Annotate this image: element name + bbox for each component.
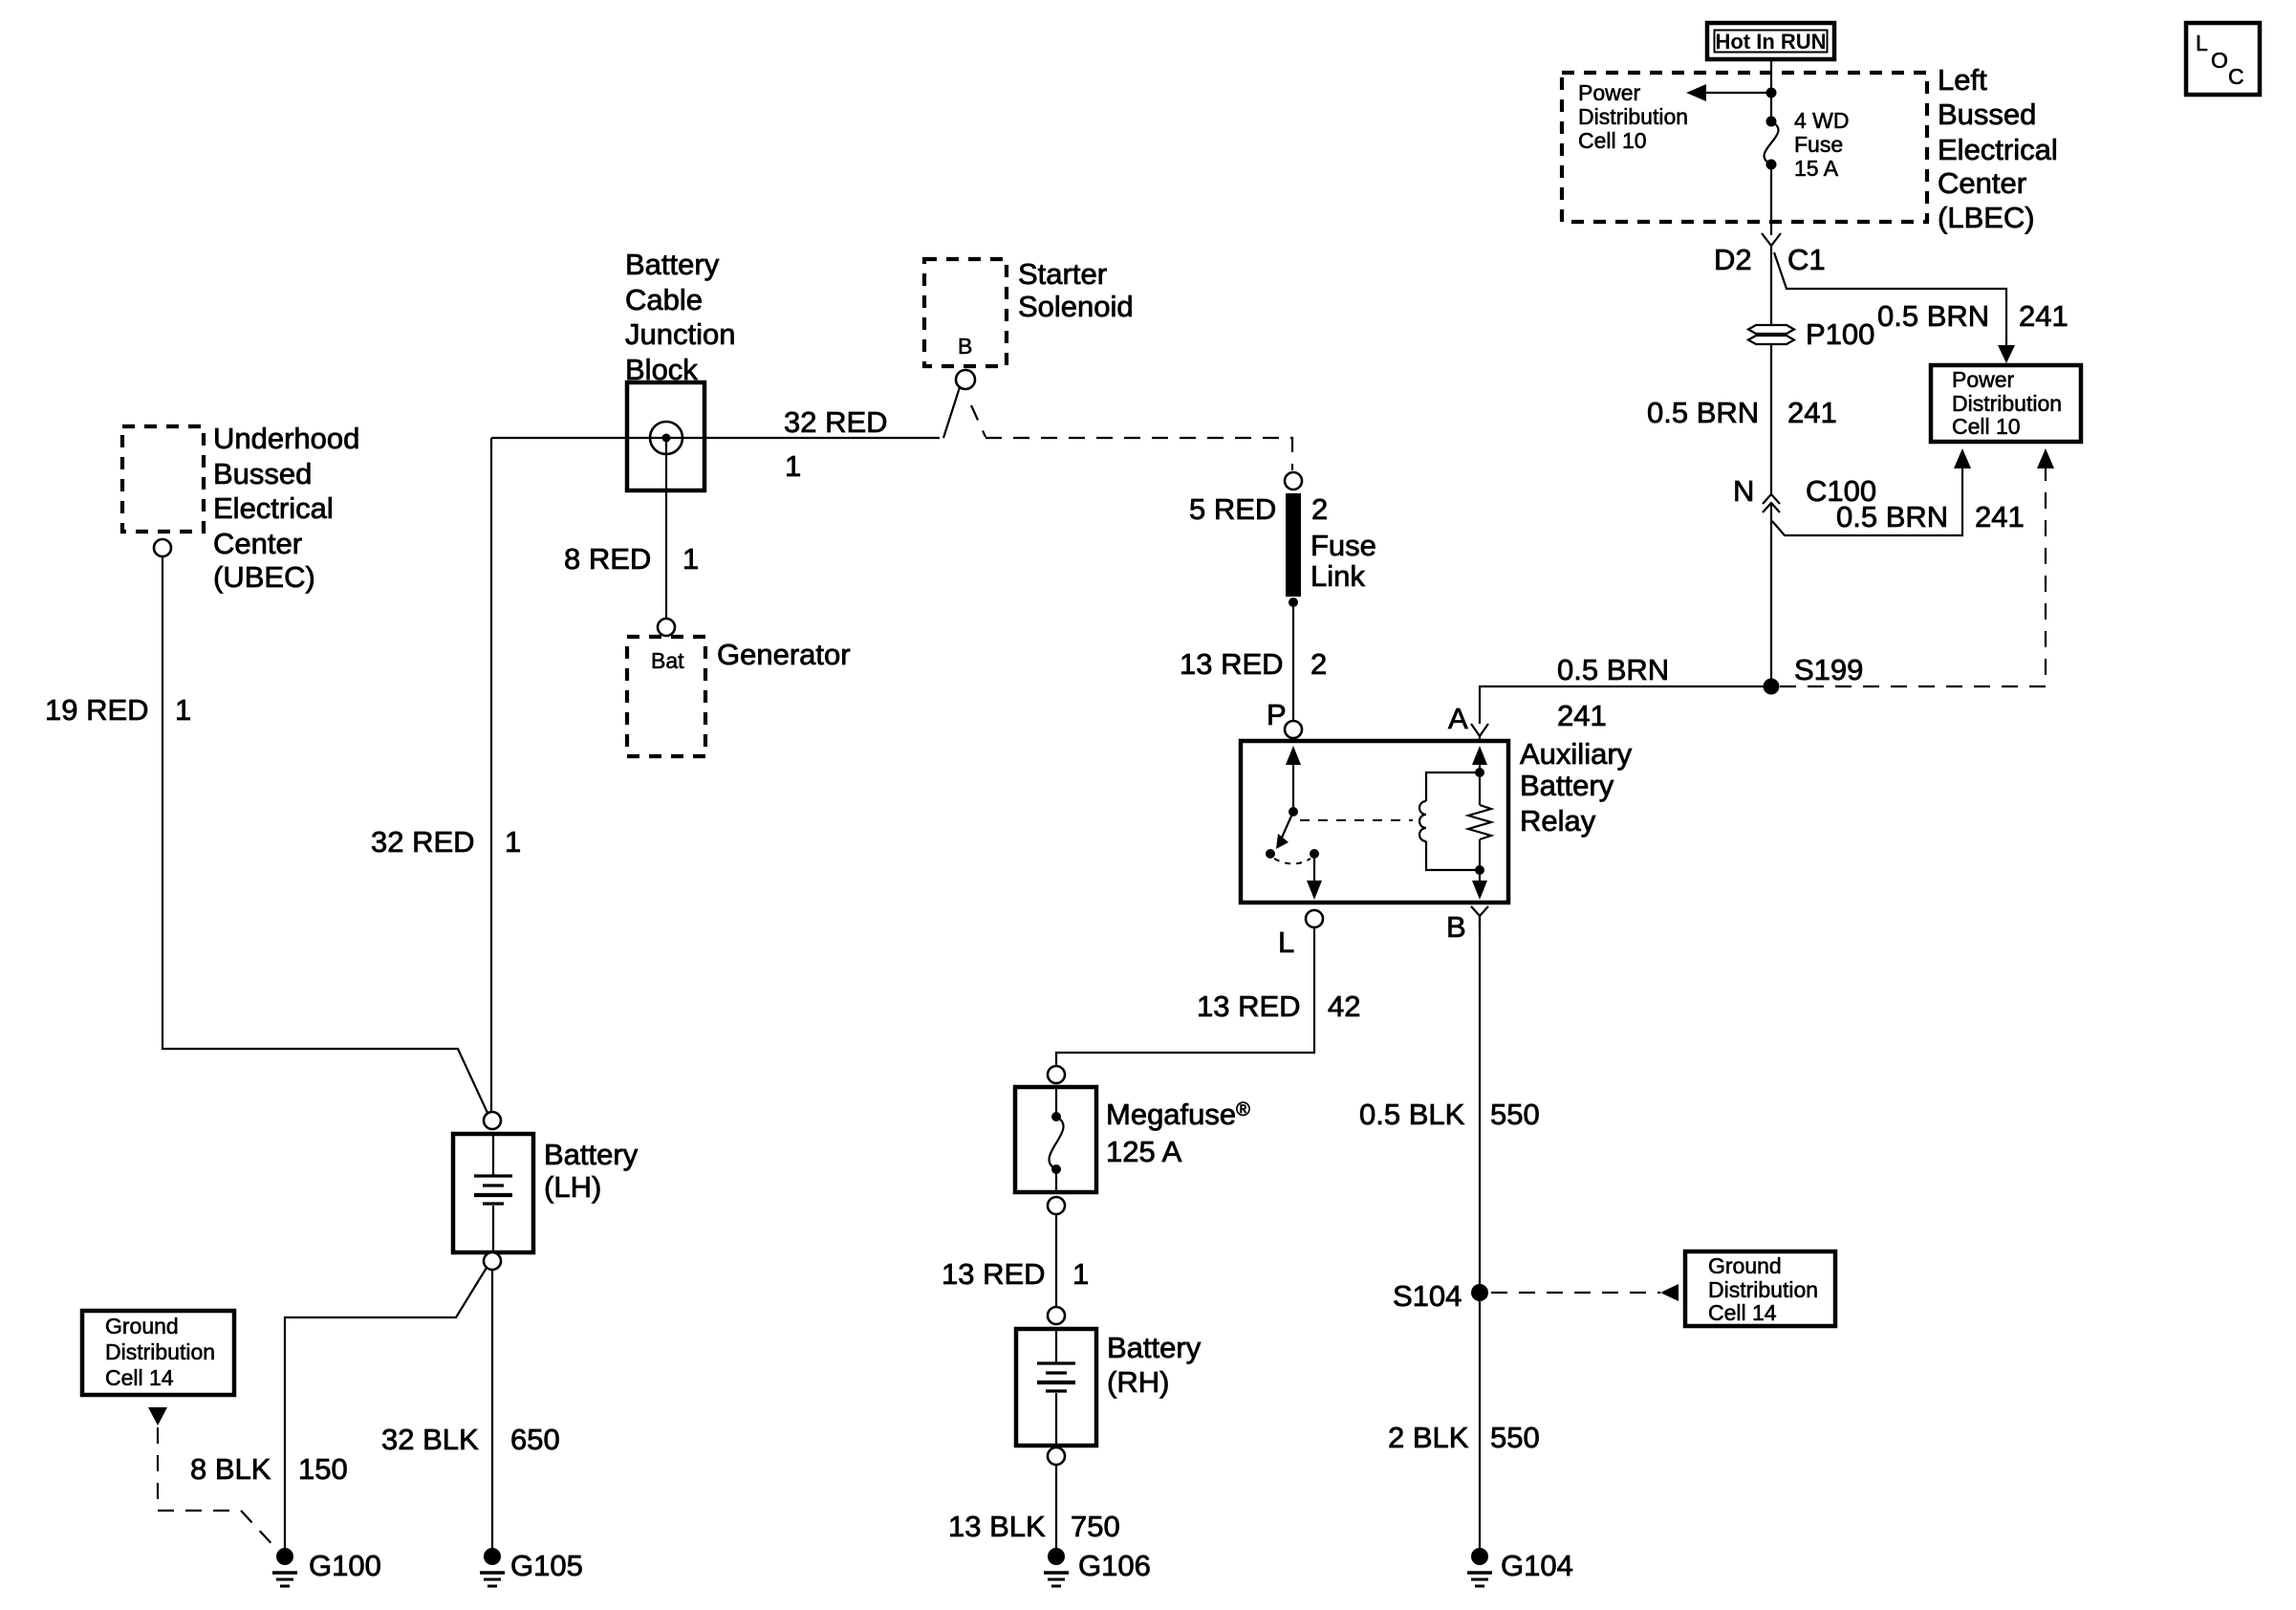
relay internal: switch contact right: [1310, 849, 1319, 859]
box: Ground Distribution Cell 14 (left): [82, 1311, 234, 1395]
label: Starter Solenoid: [1018, 257, 1134, 323]
svg-text:O: O: [2211, 48, 2228, 73]
label: Left Bussed Electrical Center (LBEC): [1938, 63, 2058, 234]
ground G100: [272, 1548, 297, 1586]
svg-text:13 RED: 13 RED: [942, 1257, 1046, 1291]
wire: junction block to battery LH (32 RED 1): [490, 438, 492, 1112]
connector: battery RH positive ring: [1048, 1307, 1065, 1324]
wire: relay B to G104: [1479, 916, 1481, 1549]
svg-text:1: 1: [785, 449, 801, 483]
LOC inset box: [2186, 23, 2260, 95]
svg-text:550: 550: [1490, 1421, 1540, 1454]
svg-text:Distribution: Distribution: [1952, 391, 2062, 416]
svg-text:G106: G106: [1078, 1549, 1151, 1582]
svg-text:32 RED: 32 RED: [784, 405, 888, 439]
svg-text:2: 2: [1311, 492, 1328, 526]
fuse link element: [1289, 493, 1298, 607]
svg-text:L: L: [1278, 925, 1294, 959]
ground G106: [1044, 1548, 1069, 1586]
node S104: [1471, 1284, 1488, 1301]
svg-text:19 RED: 19 RED: [45, 693, 149, 727]
Hot In RUN label box: [1707, 23, 1834, 59]
wire: P100 to C100: [1770, 344, 1772, 494]
wire: fuse to connector C1: [1770, 164, 1772, 235]
box: Power Distribution Cell 10: [1931, 365, 2081, 442]
relay internal: coil: [1419, 772, 1480, 870]
svg-text:Battery: Battery: [1520, 769, 1614, 802]
wire: C100 to S199: [1770, 505, 1772, 686]
svg-text:Hot In RUN: Hot In RUN: [1715, 30, 1826, 54]
svg-text:Underhood: Underhood: [213, 422, 359, 455]
connector: battery LH positive ring: [484, 1112, 501, 1129]
svg-text:650: 650: [510, 1423, 560, 1456]
battery cable junction block box: [627, 382, 704, 490]
svg-text:C: C: [2228, 64, 2244, 89]
svg-text:B: B: [958, 334, 972, 359]
dashed wire: solenoid B to fuse link: [971, 405, 1292, 470]
connector D2/C1: [1762, 233, 1781, 246]
svg-text:0.5 BRN: 0.5 BRN: [1836, 500, 1948, 533]
svg-text:1: 1: [682, 542, 699, 576]
wire: C100 branch arrow to Power Distribution Cell 10 (0.5 BRN 241): [1772, 448, 1971, 535]
svg-text:Distribution: Distribution: [105, 1339, 215, 1364]
connector: UBEC feed ring: [154, 539, 171, 556]
starter solenoid dashed box: [924, 259, 1007, 366]
label: Megafuse 125 A: [1106, 1098, 1250, 1168]
svg-text:5 RED: 5 RED: [1189, 492, 1276, 526]
relay internal: switch pivot: [1289, 807, 1298, 816]
label: Battery (RH): [1107, 1331, 1202, 1399]
svg-text:750: 750: [1071, 1510, 1120, 1543]
svg-text:1: 1: [1072, 1257, 1089, 1291]
svg-text:8 BLK: 8 BLK: [190, 1452, 271, 1486]
dashed wire: S199 to Power Distribution Cell 10: [1780, 448, 2054, 686]
svg-text:150: 150: [298, 1452, 348, 1486]
connector: relay pin A: [1471, 724, 1488, 741]
svg-text:0.5 BLK: 0.5 BLK: [1359, 1098, 1465, 1131]
svg-text:13 BLK: 13 BLK: [948, 1510, 1046, 1543]
svg-text:(UBEC): (UBEC): [213, 560, 315, 594]
Megafuse box: [1015, 1087, 1096, 1192]
svg-text:N: N: [1733, 474, 1754, 508]
svg-text:Distribution: Distribution: [1578, 104, 1688, 129]
label: Battery Cable Junction Block: [625, 248, 735, 386]
svg-text:0.5 BRN: 0.5 BRN: [1557, 653, 1669, 686]
svg-text:Fuse: Fuse: [1794, 132, 1843, 157]
battery LH box: [453, 1134, 533, 1252]
svg-text:Relay: Relay: [1520, 804, 1596, 838]
svg-text:241: 241: [2019, 299, 2069, 333]
svg-text:Auxiliary: Auxiliary: [1520, 737, 1633, 771]
svg-text:32 RED: 32 RED: [371, 825, 475, 859]
svg-text:G100: G100: [309, 1549, 381, 1582]
svg-text:241: 241: [1557, 699, 1607, 732]
Megafuse element: [1049, 1089, 1063, 1190]
battery LH cell symbol: [474, 1136, 512, 1251]
svg-text:Cell 10: Cell 10: [1578, 128, 1647, 153]
dashed reference: S104 to Ground Distribution Cell 14: [1491, 1284, 1679, 1301]
svg-text:Battery: Battery: [625, 248, 720, 281]
connector: generator Bat ring: [658, 619, 675, 636]
connector: Megafuse bottom ring: [1048, 1197, 1065, 1214]
svg-text:1: 1: [175, 693, 191, 727]
svg-text:Cell 14: Cell 14: [105, 1365, 174, 1390]
svg-text:G105: G105: [510, 1549, 583, 1582]
svg-text:D2: D2: [1714, 243, 1752, 276]
LBEC dashed box (Left Bussed Electrical Center): [1562, 73, 1927, 222]
connector C100 (double chevron): [1763, 494, 1780, 512]
svg-text:0.5 BRN: 0.5 BRN: [1877, 299, 1989, 333]
svg-text:241: 241: [1975, 500, 2025, 533]
svg-text:125 A: 125 A: [1106, 1135, 1182, 1168]
relay internal: P input arrow: [1286, 746, 1301, 812]
svg-text:Left: Left: [1938, 63, 1987, 97]
svg-text:550: 550: [1490, 1098, 1540, 1131]
svg-text:Bussed: Bussed: [1938, 98, 2036, 131]
svg-text:L: L: [2196, 31, 2208, 55]
svg-text:15 A: 15 A: [1794, 156, 1839, 181]
svg-text:Cable: Cable: [625, 283, 703, 316]
relay internal: switch arm: [1276, 812, 1293, 849]
svg-text:Battery: Battery: [544, 1138, 639, 1171]
svg-text:(LBEC): (LBEC): [1938, 201, 2035, 234]
svg-text:(LH): (LH): [544, 1170, 601, 1204]
box: Ground Distribution Cell 14 (right): [1685, 1251, 1835, 1326]
wire: battery RH to G106 (13 BLK 750): [1055, 1465, 1057, 1549]
connector: relay pin P: [1285, 721, 1302, 738]
wire: UBEC to battery LH (19 RED 1): [162, 556, 487, 1113]
connector: battery LH negative ring: [484, 1252, 501, 1270]
svg-text:1: 1: [505, 825, 521, 859]
svg-text:Junction: Junction: [625, 317, 735, 351]
svg-text:Cell 14: Cell 14: [1708, 1300, 1777, 1325]
battery RH box: [1016, 1329, 1096, 1446]
wire: 32 RED bus through junction block: [491, 437, 940, 439]
UBEC dashed box: [122, 426, 204, 532]
relay: Auxiliary Battery Relay box: [1241, 741, 1508, 903]
svg-text:Electrical: Electrical: [213, 491, 334, 525]
svg-text:42: 42: [1328, 990, 1360, 1023]
wire: rise from 32 RED to solenoid B: [943, 387, 960, 438]
svg-text:Center: Center: [213, 527, 302, 560]
svg-text:Center: Center: [1938, 166, 2026, 200]
svg-text:Power: Power: [1578, 80, 1641, 105]
svg-text:Starter: Starter: [1018, 257, 1107, 291]
svg-text:4 WD: 4 WD: [1794, 108, 1850, 133]
wire: fuse link to relay P (13 RED 2): [1292, 602, 1294, 721]
ground G104: [1467, 1548, 1492, 1586]
svg-text:Power: Power: [1952, 367, 2015, 392]
svg-text:2: 2: [1310, 647, 1327, 681]
svg-text:C1: C1: [1787, 243, 1826, 276]
node: coil/resistor top junction: [1475, 768, 1484, 777]
svg-text:Battery: Battery: [1107, 1331, 1202, 1364]
svg-text:32 BLK: 32 BLK: [381, 1423, 479, 1456]
svg-text:Cell 10: Cell 10: [1952, 414, 2021, 439]
svg-text:B: B: [1446, 910, 1466, 944]
relay internal: switch travel dashed arc: [1274, 859, 1310, 864]
label: Auxiliary Battery Relay: [1520, 737, 1633, 838]
junction block terminal: [650, 422, 682, 454]
wire: junction block to generator (8 RED 1): [665, 442, 667, 619]
svg-text:Distribution: Distribution: [1708, 1277, 1818, 1302]
relay internal: wire to B with arrow: [1472, 870, 1487, 900]
label: 4 WD Fuse 15 A: [1794, 108, 1850, 181]
relay internal: resistor: [1468, 772, 1491, 870]
wire: battery LH to G100 (8 BLK 150): [285, 1268, 487, 1549]
wire: Megafuse to battery RH (13 RED 1): [1055, 1214, 1057, 1307]
node: coil/resistor bottom junction: [1475, 865, 1484, 875]
svg-text:Ground: Ground: [105, 1314, 179, 1338]
svg-text:Link: Link: [1310, 559, 1365, 593]
label: Battery (LH): [544, 1138, 639, 1204]
svg-text:Bat: Bat: [651, 648, 684, 673]
wire: C1 branch to Power Distribution Cell 10 (0.5 BRN 241): [1774, 252, 2015, 363]
label: Fuse Link: [1310, 529, 1376, 593]
battery RH cell symbol: [1037, 1331, 1075, 1444]
node: LBEC bus junction: [1766, 88, 1777, 98]
svg-text:8 RED: 8 RED: [564, 542, 651, 576]
node S199: [1764, 679, 1780, 695]
dashed reference: Ground Distribution Cell 14 to G100: [148, 1407, 278, 1551]
connector: Megafuse top ring: [1048, 1066, 1065, 1083]
wire: S199 to relay terminal A: [1480, 686, 1771, 724]
connector: fuse link top ring: [1285, 472, 1302, 490]
svg-text:13 RED: 13 RED: [1180, 647, 1284, 681]
relay internal: switch contact left: [1266, 849, 1275, 859]
svg-text:Bussed: Bussed: [213, 457, 312, 490]
svg-text:Generator: Generator: [717, 638, 851, 671]
svg-text:Fuse: Fuse: [1310, 529, 1376, 562]
ground G105: [480, 1548, 505, 1586]
svg-text:2 BLK: 2 BLK: [1388, 1421, 1469, 1454]
svg-text:0.5 BRN: 0.5 BRN: [1647, 396, 1759, 429]
svg-text:A: A: [1448, 702, 1468, 735]
wire: C1 to P100: [1770, 245, 1772, 325]
connector: starter solenoid B ring: [956, 370, 975, 389]
svg-text:P100: P100: [1806, 317, 1874, 351]
connector: battery RH negative ring: [1048, 1447, 1065, 1465]
svg-text:S199: S199: [1794, 653, 1863, 686]
relay internal: A input arrow: [1472, 746, 1487, 772]
svg-text:Ground: Ground: [1708, 1253, 1782, 1278]
svg-text:241: 241: [1787, 396, 1837, 429]
svg-text:(RH): (RH): [1107, 1365, 1169, 1399]
svg-text:Electrical: Electrical: [1938, 133, 2058, 166]
relay internal: wire to L with arrow: [1307, 854, 1322, 900]
connector: relay pin L: [1306, 910, 1323, 927]
label: Underhood Bussed Electrical Center (UBEC): [213, 422, 359, 594]
connector: relay pin B: [1471, 906, 1488, 929]
wire: Hot In RUN feed into LBEC: [1770, 59, 1772, 121]
svg-text:Solenoid: Solenoid: [1018, 290, 1134, 323]
wire: arrow to Power Distribution Cell 10 inside LBEC: [1686, 84, 1771, 101]
generator dashed box: [627, 637, 705, 756]
svg-text:P: P: [1267, 698, 1287, 731]
svg-text:13 RED: 13 RED: [1197, 990, 1301, 1023]
svg-text:Megafuse®: Megafuse®: [1106, 1098, 1250, 1131]
grommet P100: [1748, 325, 1794, 344]
relay internal: coil drive dashed link: [1300, 819, 1413, 821]
svg-text:G104: G104: [1501, 1549, 1573, 1582]
fuse: 4 WD Fuse 15 A: [1764, 117, 1778, 170]
svg-text:S104: S104: [1393, 1279, 1462, 1313]
label: Power Distribution Cell 10 (inside LBEC): [1578, 80, 1688, 153]
wire: battery LH to G105 (32 BLK 650): [491, 1270, 493, 1549]
wire: relay L to Megafuse (13 RED 42): [1056, 927, 1314, 1066]
